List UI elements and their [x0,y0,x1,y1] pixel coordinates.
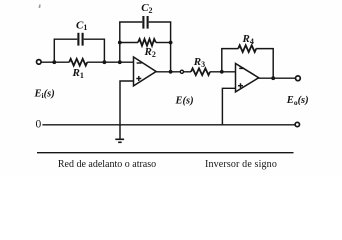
svg-text:Ei(s): Ei(s) [34,88,55,100]
wire op-amp U1 plus input [120,81,134,139]
wire R2 level right [156,42,171,44]
node: R2 left junction [118,41,122,45]
svg-text:R2: R2 [144,46,156,59]
wire op-amp U2 plus input to 0 rail [222,88,235,125]
caption rule [37,152,294,154]
wire op-amp U2 output to Eo terminal [258,77,295,79]
node: C1 R1 right junction [103,60,107,64]
wire R4 branch left riser [222,49,238,72]
wire 0 reference rail [42,124,295,126]
speck (scan artifact) [39,4,41,8]
svg-text:C1: C1 [76,19,87,32]
capacitor C1 [78,33,82,46]
svg-text:R1: R1 [72,67,84,80]
ground [115,139,124,142]
wire C1 branch right riser [84,39,105,62]
svg-text:C2: C2 [141,2,152,15]
wire R3 to op-amp U2 minus input [210,71,236,73]
svg-text:E(s): E(s) [175,96,194,107]
op-amp U2 minus marker [239,67,244,69]
resistor R2 [138,39,156,46]
wire R2 level left [120,42,138,44]
node: R2 right junction [169,41,173,45]
wire C2 branch left riser [120,22,143,62]
output terminal Eo(s) [296,76,301,81]
node: U2 output junction [271,76,275,80]
op-amp U2 plus marker [238,83,243,88]
resistor R3 [191,68,210,75]
svg-text:Inversor de signo: Inversor de signo [205,159,277,170]
wire C1 branch left riser [54,39,77,62]
node: input junction [52,60,56,64]
svg-text:Eo(s): Eo(s) [286,95,309,107]
node: U2 summing junction [220,70,224,74]
terminal E(s) [180,70,183,73]
node: U1 summing junction [118,60,122,64]
resistor R1 [69,59,87,66]
op-amp U1 plus marker [136,76,141,81]
terminal 0 rail right [295,122,299,126]
input terminal Ei(s) [37,60,42,65]
wire op-amp U1 output to node E(s) and resistor R3 [156,71,192,73]
wire input terminal to op-amp U1 minus input [39,61,69,63]
svg-text:0: 0 [36,119,42,131]
svg-text:Red de adelanto o atraso: Red de adelanto o atraso [58,159,156,170]
op-amp U2 [236,64,259,92]
wire R4 branch right riser [256,49,273,79]
wire C2 branch right riser [149,22,171,72]
capacitor C2 [143,16,147,29]
op-amp U1 [134,57,157,86]
resistor R4 [238,45,256,52]
svg-text:R4: R4 [242,33,254,46]
svg-text:R3: R3 [193,56,205,69]
wire R1 right to op-amp U1 [87,61,133,63]
op-amp U1 minus marker [137,62,142,64]
node: U1 output junction [169,70,173,74]
